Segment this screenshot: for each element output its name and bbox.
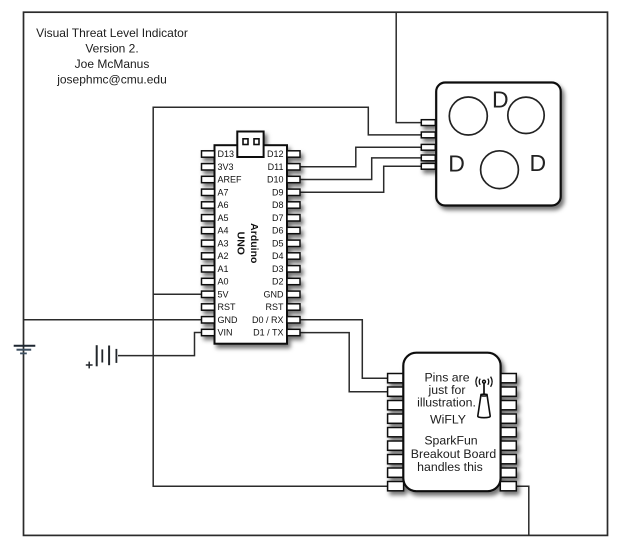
U1 pin D8 (right row 5) — [287, 202, 300, 208]
svg-text:A1: A1 — [218, 264, 229, 274]
U2 body — [403, 353, 500, 492]
U2 pin 3 (left) — [388, 401, 404, 410]
svg-text:D9: D9 — [272, 188, 284, 198]
svg-text:Version 2.: Version 2. — [85, 42, 138, 56]
U1 pin 3V3 (left row 2) — [202, 164, 215, 170]
LED module pin 5 — [421, 163, 435, 169]
svg-text:A5: A5 — [218, 213, 229, 223]
svg-text:A0: A0 — [218, 277, 229, 287]
U1 pin D6 (right row 7) — [287, 227, 300, 233]
svg-text:GND: GND — [264, 290, 285, 300]
wire: Arduino D11 to LED module pin 3 — [300, 147, 422, 167]
svg-text:A4: A4 — [218, 226, 229, 236]
U1 pin D2 (right row 11) — [287, 278, 300, 284]
svg-text:RST: RST — [218, 302, 237, 312]
svg-text:D6: D6 — [272, 226, 284, 236]
U2 pin 15 (right) — [500, 441, 516, 450]
LED D3 circle — [481, 151, 519, 189]
svg-text:VIN: VIN — [218, 328, 233, 338]
U1 pin A0 (left row 11) — [202, 278, 215, 284]
svg-text:D: D — [448, 151, 465, 177]
svg-text:D13: D13 — [218, 149, 235, 159]
wire: WiFly pin 10 to bottom border ground net — [516, 486, 529, 535]
U1 body — [215, 145, 288, 344]
svg-text:Arduino: Arduino — [248, 223, 260, 263]
svg-text:D: D — [492, 86, 509, 112]
wire: Arduino D10 to LED module pin 4 — [300, 158, 422, 180]
wire: LED module pin 1 to top border ground net — [396, 12, 421, 122]
LED D2 circle — [508, 97, 544, 133]
battery — [86, 345, 117, 368]
U1 pin A4 (left row 7) — [202, 227, 215, 233]
U1 pin D10 (right row 3) — [287, 176, 300, 182]
svg-text:3V3: 3V3 — [218, 162, 234, 172]
svg-text:WiFLY: WiFLY — [430, 412, 466, 426]
U2 note text — [411, 370, 497, 474]
svg-text:D3: D3 — [272, 264, 284, 274]
svg-text:A2: A2 — [218, 251, 229, 261]
U1 pin A3 (left row 8) — [202, 240, 215, 246]
wire: LED module pin 2 to WiFly pin 18 power net — [153, 107, 421, 486]
svg-text:D12: D12 — [267, 149, 284, 159]
LED D1 circle — [449, 97, 487, 135]
title block — [36, 26, 188, 87]
U1 pin A2 (left row 9) — [202, 253, 215, 259]
U1 pin RST (right row 13) — [287, 304, 300, 310]
U1 pin AREF (left row 3) — [202, 176, 215, 182]
svg-text:D10: D10 — [267, 175, 284, 185]
U1 pin GND (right row 12) — [287, 291, 300, 297]
wire: left border to Arduino GND — [24, 319, 202, 321]
ground — [14, 346, 36, 354]
LED module pins 1-5 — [421, 120, 435, 170]
LED module body — [436, 83, 561, 206]
svg-text:A6: A6 — [218, 200, 229, 210]
U1 pin D11 (right row 2) — [287, 164, 300, 170]
U2 pin 7 (left) — [388, 455, 404, 464]
svg-text:Breakout Board: Breakout Board — [411, 447, 497, 461]
U2 pin 18 (right) — [500, 482, 516, 491]
U2 antenna icon — [476, 377, 492, 418]
U1 pin VIN (left row 15) — [202, 329, 215, 335]
svg-text:D5: D5 — [272, 239, 284, 249]
svg-text:SparkFun: SparkFun — [424, 434, 477, 448]
svg-text:D1 / TX: D1 / TX — [253, 328, 283, 338]
U1 pin D12 (right row 1) — [287, 151, 300, 157]
svg-text:D2: D2 — [272, 277, 284, 287]
U1 pin D7 (right row 6) — [287, 215, 300, 221]
U2 pin 10 (right) — [500, 374, 516, 383]
U2 left pins — [388, 374, 404, 491]
svg-text:D11: D11 — [268, 162, 284, 172]
svg-text:D8: D8 — [272, 200, 284, 210]
U1 pin A1 (left row 10) — [202, 266, 215, 272]
svg-text:A3: A3 — [218, 239, 229, 249]
U2 pin 5 (left) — [388, 428, 404, 437]
svg-text:D7: D7 — [272, 213, 284, 223]
U1 pin D5 (right row 8) — [287, 240, 300, 246]
U1 pin D13 (left row 1) — [202, 151, 215, 157]
wire: Arduino D1/TX to WiFly pin 2 — [300, 333, 388, 392]
svg-text:Visual Threat Level Indicator: Visual Threat Level Indicator — [36, 26, 188, 40]
svg-text:UNO: UNO — [235, 232, 247, 255]
U1 pin D9 (right row 4) — [287, 189, 300, 195]
LED module pin 1 — [421, 120, 435, 126]
svg-text:Joe McManus: Joe McManus — [75, 57, 150, 71]
LED module pin 2 — [421, 132, 435, 138]
U2 right pins — [500, 374, 516, 491]
svg-text:D: D — [530, 150, 547, 176]
U1 pin D4 (right row 9) — [287, 253, 300, 259]
LED module pin 3 — [421, 144, 435, 150]
U2 pin 16 (right) — [500, 455, 516, 464]
svg-text:D4: D4 — [272, 251, 284, 261]
U2 pin 11 (right) — [500, 387, 516, 396]
U2 pin 9 (left) — [388, 482, 404, 491]
U1 left pins — [202, 151, 215, 336]
U2 pin 14 (right) — [500, 428, 516, 437]
svg-text:RST: RST — [266, 302, 285, 312]
U2 pin 2 (left) — [388, 387, 404, 396]
wire: Arduino 5V to power net — [153, 293, 201, 295]
svg-text:handles this: handles this — [417, 460, 483, 474]
wire: battery + terminal to Arduino VIN — [118, 333, 202, 356]
svg-text:A7: A7 — [218, 188, 229, 198]
wire: Arduino D9 to LED module pin 5 — [300, 166, 422, 192]
U2 pin 13 (right) — [500, 414, 516, 423]
U1 pin A6 (left row 5) — [202, 202, 215, 208]
U2 pin 17 (right) — [500, 468, 516, 477]
svg-text:GND: GND — [218, 315, 239, 325]
U1 pin D0/RX (right row 14) — [287, 317, 300, 323]
LED module pin 4 — [421, 155, 435, 161]
WiFly SparkFun breakout U2 — [388, 353, 517, 492]
U1 pin RST (left row 13) — [202, 304, 215, 310]
U2 pin 8 (left) — [388, 468, 404, 477]
wire: Arduino D0/RX to WiFly pin 1 — [300, 320, 388, 378]
Arduino UNO U1 — [202, 132, 301, 344]
U2 pin 1 (left) — [388, 374, 404, 383]
U1 pin labels right — [252, 149, 284, 338]
svg-text:AREF: AREF — [218, 175, 243, 185]
U1 part name label — [235, 223, 260, 263]
U2 pin 6 (left) — [388, 441, 404, 450]
U1 pin GND (left row 14) — [202, 317, 215, 323]
svg-text:5V: 5V — [218, 290, 229, 300]
U1 pin A5 (left row 6) — [202, 215, 215, 221]
U1 pin A7 (left row 4) — [202, 189, 215, 195]
U1 pin labels left — [218, 149, 243, 338]
U2 pin 4 (left) — [388, 414, 404, 423]
U1 USB connector — [237, 132, 263, 158]
LED module (threat level indicator display) — [421, 83, 560, 206]
U1 pin 5V (left row 12) — [202, 291, 215, 297]
U1 right pins — [287, 151, 300, 336]
U2 pin 12 (right) — [500, 401, 516, 410]
svg-text:illustration.: illustration. — [417, 396, 476, 410]
U1 pin D3 (right row 10) — [287, 266, 300, 272]
svg-text:D0 / RX: D0 / RX — [252, 315, 284, 325]
U1 pin D1/TX (right row 15) — [287, 329, 300, 335]
svg-text:josephmc@cmu.edu: josephmc@cmu.edu — [56, 73, 167, 87]
